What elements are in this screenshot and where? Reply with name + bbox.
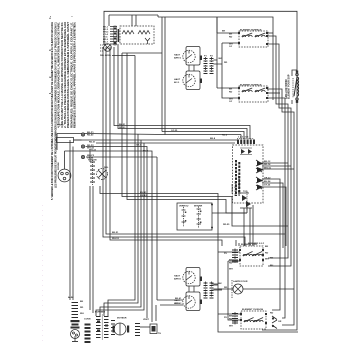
svg-text:BK: BK xyxy=(229,34,233,36)
svg-text:*: * xyxy=(71,16,75,17)
svg-text:WH: WH xyxy=(229,269,233,271)
svg-text:RD-31: RD-31 xyxy=(89,142,96,144)
svg-text:RD: RD xyxy=(229,37,233,39)
svg-text:WH-16: WH-16 xyxy=(264,168,272,170)
svg-text:BK: BK xyxy=(80,301,84,303)
svg-text:GY: GY xyxy=(229,46,233,48)
svg-text:RD-23: RD-23 xyxy=(119,127,126,129)
svg-text:VERROU: VERROU xyxy=(179,206,189,208)
svg-text:P8: P8 xyxy=(224,317,227,319)
svg-text:*: * xyxy=(49,16,53,17)
svg-text:OR-8: OR-8 xyxy=(103,44,109,46)
svg-text:RD: RD xyxy=(265,253,269,255)
svg-text:GY-25: GY-25 xyxy=(171,130,178,132)
svg-text:TOD: TOD xyxy=(243,191,248,193)
svg-text:GY: GY xyxy=(229,101,233,103)
svg-text:RD-14: RD-14 xyxy=(264,163,271,166)
svg-text:GY-26: GY-26 xyxy=(264,185,271,187)
svg-text:RD: RD xyxy=(270,258,274,260)
svg-text:INTERR: INTERR xyxy=(194,206,203,208)
svg-text:WH-53: WH-53 xyxy=(112,238,120,240)
svg-text:BK-12: BK-12 xyxy=(264,161,271,163)
svg-text:ELEMENT SURFACE: ELEMENT SURFACE xyxy=(240,29,262,32)
svg-text:VENT: VENT xyxy=(143,319,149,321)
svg-text:ALIM: ALIM xyxy=(68,296,74,299)
svg-text:WH: WH xyxy=(265,259,269,261)
svg-text:OR-22: OR-22 xyxy=(264,178,271,180)
svg-text:ELEMENT CUISSON: ELEMENT CUISSON xyxy=(242,309,263,311)
svg-text:HAUT: HAUT xyxy=(174,54,181,57)
svg-text:BK-P1: BK-P1 xyxy=(87,132,94,134)
svg-text:1 2 3 4 5 6: 1 2 3 4 5 6 xyxy=(238,136,249,139)
svg-text:OR: OR xyxy=(278,321,282,323)
svg-text:GY-3: GY-3 xyxy=(136,145,142,147)
svg-text:RD: RD xyxy=(229,319,233,321)
svg-text:RD: RD xyxy=(224,287,228,289)
svg-text:GRILLOIR 3000W: GRILLOIR 3000W xyxy=(285,79,288,99)
svg-text:RD-40: RD-40 xyxy=(87,134,94,137)
svg-text:RD-55: RD-55 xyxy=(223,224,230,226)
svg-text:BU-24: BU-24 xyxy=(264,180,271,183)
svg-text:BORNIER: BORNIER xyxy=(95,312,106,314)
svg-text:ELEMENT GRIL: ELEMENT GRIL xyxy=(241,244,258,246)
svg-text:HAUT: HAUT xyxy=(174,78,181,81)
svg-text:TH: TH xyxy=(158,333,161,335)
svg-text:RD: RD xyxy=(80,307,84,309)
svg-text:WH: WH xyxy=(80,313,84,315)
svg-text:BU-41: BU-41 xyxy=(140,191,147,194)
svg-text:AV G: AV G xyxy=(174,81,179,84)
svg-text:BK: BK xyxy=(229,260,233,262)
svg-text:DEL: DEL xyxy=(104,167,109,169)
svg-text:P9: P9 xyxy=(224,253,227,255)
svg-text:BK-51: BK-51 xyxy=(112,232,119,234)
svg-text:REMARQUES: DEBRANCHER L'APPARE: REMARQUES: DEBRANCHER L'APPAREIL AVANT D… xyxy=(73,22,77,128)
svg-text:PRISE: PRISE xyxy=(57,125,64,127)
svg-text:RD: RD xyxy=(229,92,233,94)
svg-text:BU: BU xyxy=(270,265,274,267)
svg-text:ARR G: ARR G xyxy=(174,57,181,60)
svg-text:P2: P2 xyxy=(210,56,213,58)
svg-text:CONN: CONN xyxy=(84,319,91,321)
svg-text:BK: BK xyxy=(229,89,233,91)
svg-text:HAUT: HAUT xyxy=(174,275,181,278)
svg-text:ELEMENT SURFACE: ELEMENT SURFACE xyxy=(240,84,262,87)
svg-text:BK-8: BK-8 xyxy=(210,138,216,140)
svg-text:BK-61: BK-61 xyxy=(175,298,182,300)
svg-text:TEMOIN: TEMOIN xyxy=(88,160,97,162)
svg-text:ARR D: ARR D xyxy=(174,278,181,281)
svg-text:BU-5: BU-5 xyxy=(143,151,149,153)
svg-text:WH-33: WH-33 xyxy=(89,150,97,152)
svg-text:SONDE: SONDE xyxy=(58,162,60,170)
svg-text:WH: WH xyxy=(229,326,233,328)
svg-text:BK: BK xyxy=(265,246,269,248)
svg-text:RD: RD xyxy=(224,62,228,64)
svg-text:WH-P3: WH-P3 xyxy=(87,155,95,157)
svg-text:DEL HORL: DEL HORL xyxy=(100,55,112,57)
svg-text:BK: BK xyxy=(222,31,226,33)
svg-text:RD: RD xyxy=(229,263,233,265)
svg-text:ELEMENT FOUR SUP: ELEMENT FOUR SUP xyxy=(288,74,291,99)
svg-text:LAMPE FOUR: LAMPE FOUR xyxy=(233,280,248,283)
svg-text:RD-6: RD-6 xyxy=(222,135,228,137)
svg-text:P1: P1 xyxy=(204,56,207,58)
svg-text:OR-43: OR-43 xyxy=(140,194,147,197)
svg-text:COMMUT: COMMUT xyxy=(232,183,234,194)
svg-text:RD-63: RD-63 xyxy=(175,303,182,305)
svg-text:MOTEUR: MOTEUR xyxy=(117,318,127,320)
svg-text:RD-P2: RD-P2 xyxy=(87,145,94,147)
svg-text:BK: BK xyxy=(219,283,223,285)
svg-text:BK: BK xyxy=(219,58,223,60)
svg-text:BK: BK xyxy=(229,316,233,318)
svg-text:RD: RD xyxy=(270,313,274,315)
svg-text:BK-21: BK-21 xyxy=(119,124,126,126)
svg-text:HORLOGE ELECT: HORLOGE ELECT xyxy=(238,175,241,196)
